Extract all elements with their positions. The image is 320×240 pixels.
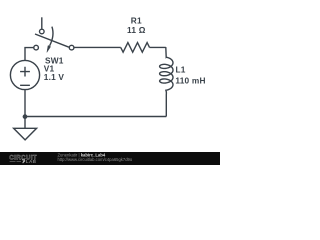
svg-text:LAB: LAB (26, 159, 37, 164)
wire junction down to ground (24, 117, 26, 129)
svg-text:11 Ω: 11 Ω (127, 25, 146, 35)
terminal C circle (left) (34, 45, 39, 50)
voltage source V1 (10, 60, 39, 89)
bottom wire from junction to right rail (25, 116, 166, 118)
wire V1 bottom to junction (24, 90, 26, 117)
junction node dot (23, 114, 28, 119)
wire top stub above switch (41, 17, 43, 29)
svg-text:http://www.circuitlab.com/c4pa: http://www.circuitlab.com/c4pa65gk7d9o (58, 157, 133, 162)
switch blade (35, 34, 69, 47)
ground symbol (14, 128, 37, 140)
switch SW1 (34, 27, 74, 53)
wire resistor to right corner (150, 46, 166, 48)
svg-text:110 mH: 110 mH (175, 75, 205, 85)
terminal A circle (top) (40, 29, 45, 34)
svg-text:R1: R1 (131, 15, 142, 25)
resistor R1 zigzag (121, 43, 150, 53)
svg-text:1.1 V: 1.1 V (44, 72, 65, 82)
actuator arrow (50, 27, 53, 46)
wire switch B to resistor (74, 46, 121, 48)
svg-text:L1: L1 (176, 65, 186, 75)
wire switch C to left rail corner then down to V1 (25, 48, 34, 61)
watermark bar (0, 152, 220, 165)
inductor L1 coil and right rail down to bottom (160, 47, 173, 116)
terminal B circle (right) (69, 45, 74, 50)
